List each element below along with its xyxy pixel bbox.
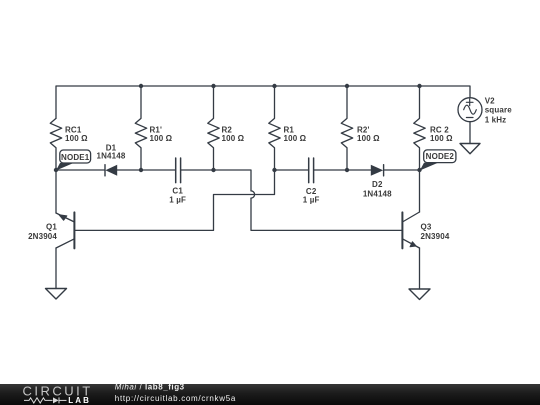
footer brand bar	[0, 384, 540, 405]
svg-text:100 Ω: 100 Ω	[430, 134, 453, 143]
wire D1 to C1	[117, 169, 175, 171]
svg-text:square: square	[485, 106, 513, 115]
svg-text:2N3904: 2N3904	[28, 232, 57, 241]
transistor Q1	[56, 170, 74, 289]
node NODE2 flag	[420, 150, 456, 171]
svg-text:1N4148: 1N4148	[363, 190, 392, 199]
wire corner down to Q3 base	[251, 198, 402, 230]
svg-text:100 Ω: 100 Ω	[357, 134, 380, 143]
junction top rail dots	[139, 84, 143, 88]
resistor RC2	[414, 86, 425, 170]
svg-text:NODE2: NODE2	[426, 152, 455, 161]
logo resistor-diode doodle	[24, 397, 67, 403]
svg-text:1 µF: 1 µF	[303, 196, 320, 205]
svg-text:NODE1: NODE1	[61, 153, 90, 162]
svg-text:1 kHz: 1 kHz	[485, 115, 507, 124]
ground Q1	[46, 289, 67, 300]
resistor R2'	[341, 86, 352, 170]
voltage source V2	[458, 98, 482, 144]
capacitor C1	[176, 158, 181, 183]
wire cross-coupling to Q1 base	[74, 170, 274, 230]
wire C1 to corner	[181, 170, 251, 191]
wire C2 to D2	[314, 169, 371, 171]
wire top rail	[56, 86, 470, 118]
wire D2 to NODE2	[384, 169, 420, 171]
ground Q3	[409, 289, 430, 300]
wire R1 node to C2	[275, 169, 309, 171]
svg-text:100 Ω: 100 Ω	[222, 134, 245, 143]
svg-text:2N3904: 2N3904	[421, 232, 450, 241]
diode D1	[105, 165, 117, 176]
wire hop over crossing	[251, 191, 255, 198]
svg-text:100 Ω: 100 Ω	[284, 134, 307, 143]
svg-text:D2: D2	[372, 180, 383, 189]
svg-text:Mihai / lab8_fig3: Mihai / lab8_fig3	[115, 384, 185, 391]
svg-text:100 Ω: 100 Ω	[150, 134, 173, 143]
resistor R1	[269, 86, 280, 170]
capacitor C2	[309, 158, 314, 183]
svg-text:1 µF: 1 µF	[169, 195, 186, 204]
svg-text:http://circuitlab.com/crnkw5a: http://circuitlab.com/crnkw5a	[115, 394, 236, 403]
resistor R2	[208, 86, 219, 170]
wire node row left	[56, 169, 105, 171]
node NODE1 flag	[56, 150, 91, 171]
svg-text:1N4148: 1N4148	[97, 152, 126, 161]
svg-text:LAB: LAB	[68, 396, 91, 405]
svg-text:100 Ω: 100 Ω	[65, 134, 88, 143]
ground V2	[460, 144, 480, 154]
svg-text:V2: V2	[485, 97, 495, 106]
diode D2	[371, 165, 384, 176]
junction node row dots	[54, 168, 58, 172]
resistor R1'	[135, 86, 146, 170]
resistor RC1	[50, 118, 61, 170]
transistor Q3	[402, 170, 419, 289]
svg-text:Q1: Q1	[46, 223, 57, 232]
svg-text:Q3: Q3	[421, 223, 432, 232]
